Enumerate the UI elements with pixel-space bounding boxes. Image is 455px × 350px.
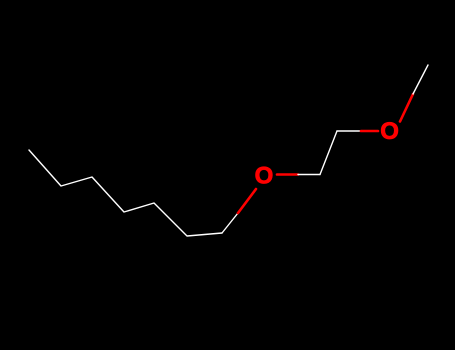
svg-text:O: O <box>255 162 274 189</box>
wire: alkyl chain zig-zag C7..C1 <box>29 150 222 236</box>
wire: bond O1 to C2 (white half) <box>298 174 320 176</box>
wire: bond O1 to C2 (red half near O1) <box>277 173 298 176</box>
svg-text:O: O <box>380 118 399 145</box>
wire: bond C3 to O2 (red half near O2) <box>361 130 378 133</box>
wire: bond O2 to CH3 (white half, terminal methyl) <box>413 65 428 94</box>
wire: bond O2 to CH3 (red half near O2) <box>400 94 413 122</box>
wire: bond C3 to O2 (white half) <box>337 130 361 132</box>
wire: bond C2 to C3 <box>320 131 337 175</box>
wire: bond C1 to O1 (red half near O1) <box>238 189 256 213</box>
wire: bond C1 to O1 (white half) <box>222 213 238 233</box>
